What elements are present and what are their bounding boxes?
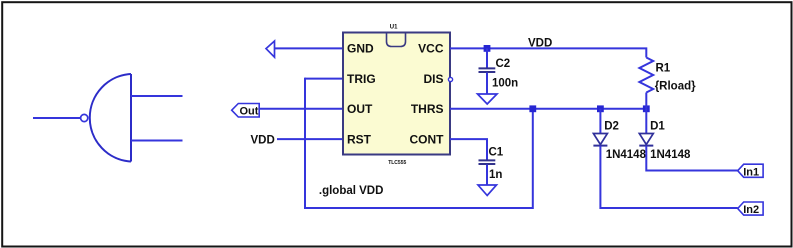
junction THRS/loop bbox=[529, 105, 536, 112]
gate input wire bbox=[33, 117, 81, 119]
wire VCC rail bbox=[450, 48, 646, 57]
wire THRS rail bbox=[450, 108, 646, 110]
capacitor C1 bbox=[479, 160, 496, 185]
svg-text:1N4148: 1N4148 bbox=[606, 149, 647, 161]
wire D1 to In1 bbox=[646, 146, 737, 171]
wire TRIG pin bbox=[305, 78, 343, 80]
wire CONT pin to C1 bbox=[450, 139, 487, 160]
diode D1 bbox=[639, 109, 653, 146]
port tag Out bbox=[232, 104, 260, 118]
gate body (mirrored AND with input bubble) bbox=[90, 74, 131, 162]
junction VCC/C2 bbox=[484, 45, 491, 52]
svg-text:D2: D2 bbox=[604, 121, 619, 133]
wire OUT pin bbox=[259, 108, 343, 110]
svg-text:DIS: DIS bbox=[423, 72, 443, 86]
svg-text:In1: In1 bbox=[743, 166, 759, 178]
svg-text:VDD: VDD bbox=[528, 37, 552, 49]
wire TRIG loop to THRS bbox=[305, 78, 533, 208]
svg-text:{Rload}: {Rload} bbox=[655, 81, 696, 93]
gate input bubble bbox=[81, 114, 88, 121]
IC U1 body bbox=[343, 33, 450, 155]
svg-text:C2: C2 bbox=[496, 58, 511, 70]
svg-text:C1: C1 bbox=[489, 146, 504, 158]
svg-text:TRIG: TRIG bbox=[347, 72, 376, 86]
svg-text:U1: U1 bbox=[390, 25, 398, 31]
svg-text:100n: 100n bbox=[492, 77, 518, 89]
svg-text:VCC: VCC bbox=[418, 42, 444, 56]
svg-text:R1: R1 bbox=[656, 63, 671, 75]
wire D2 to In2 bbox=[600, 146, 737, 208]
capacitor C2 bbox=[479, 48, 496, 94]
svg-text:RST: RST bbox=[347, 132, 372, 146]
junction THRS/D1/R1 bbox=[643, 105, 650, 112]
svg-text:OUT: OUT bbox=[347, 102, 373, 116]
ground (C1) bbox=[478, 185, 497, 196]
svg-text:Out: Out bbox=[240, 106, 259, 118]
junction THRS/D2 bbox=[597, 105, 604, 112]
svg-text:D1: D1 bbox=[650, 121, 665, 133]
diode D2 bbox=[593, 109, 607, 146]
svg-text:THRS: THRS bbox=[411, 102, 444, 116]
gate output wire upper bbox=[131, 95, 183, 97]
wire GND pin to arrow bbox=[275, 47, 344, 49]
resistor R1 bbox=[639, 58, 653, 109]
svg-text:CONT: CONT bbox=[410, 132, 445, 146]
port tag In1 bbox=[738, 164, 763, 178]
svg-text:TLC555: TLC555 bbox=[388, 160, 406, 166]
svg-text:GND: GND bbox=[347, 42, 374, 56]
svg-text:In2: In2 bbox=[743, 204, 759, 216]
gate output wire lower bbox=[131, 140, 183, 142]
DIS pin bubble bbox=[448, 77, 452, 81]
svg-text:VDD: VDD bbox=[251, 135, 275, 147]
wire RST pin bbox=[277, 138, 343, 140]
svg-text:1N4148: 1N4148 bbox=[650, 149, 691, 161]
svg-text:1n: 1n bbox=[489, 169, 502, 181]
GND pin arrow connector bbox=[266, 41, 275, 57]
svg-text:.global VDD: .global VDD bbox=[319, 185, 384, 197]
ground (C2) bbox=[478, 94, 498, 104]
port tag In2 bbox=[738, 202, 763, 216]
